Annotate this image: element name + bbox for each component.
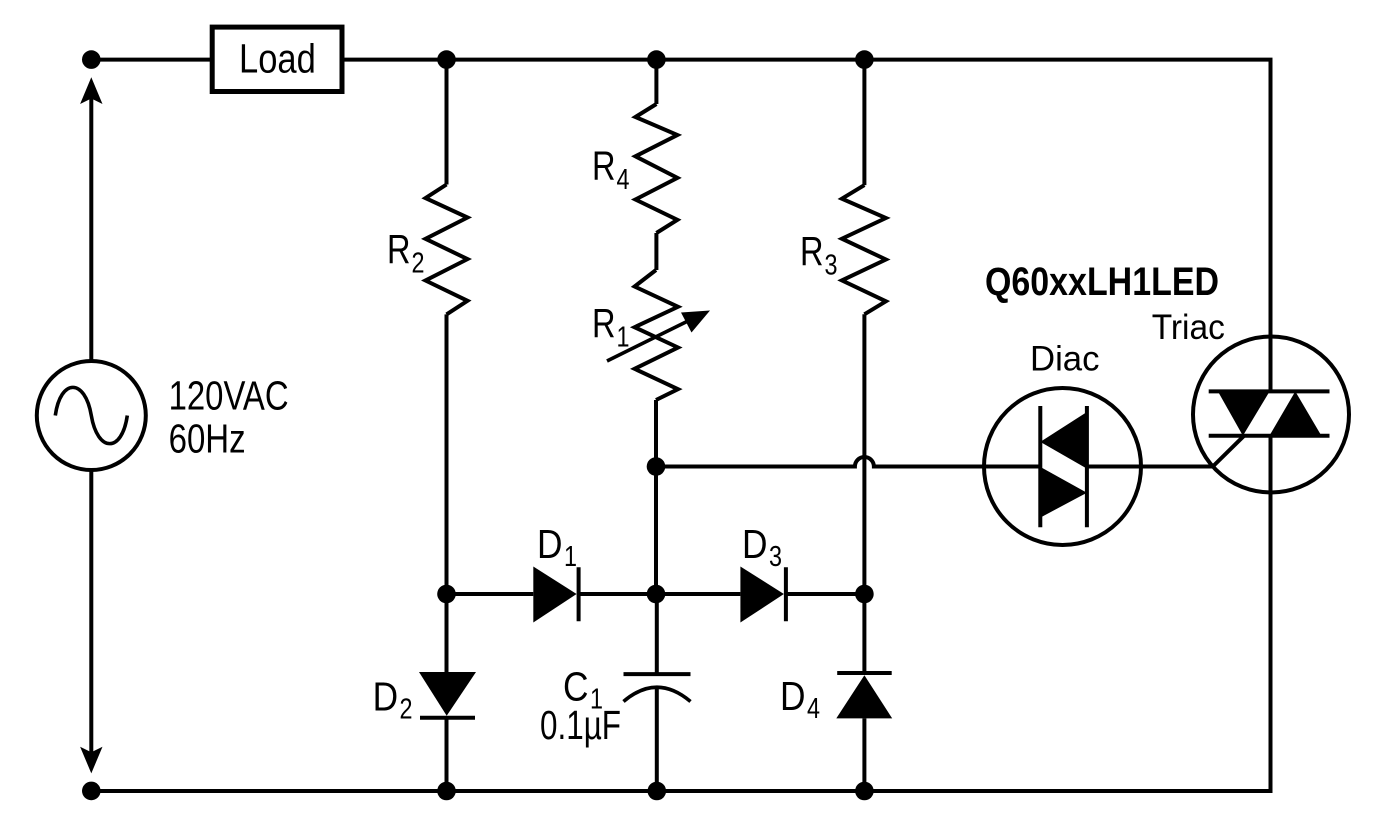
diode D1 triangle xyxy=(533,567,576,623)
wire C1 bottom lead xyxy=(655,688,659,791)
arrowhead down xyxy=(80,747,102,774)
Diac right wire to triac gate xyxy=(1087,465,1213,469)
diode D3 triangle xyxy=(740,567,784,623)
Triac right triangle xyxy=(1269,391,1321,435)
AC source sine wave xyxy=(55,387,127,443)
diode D4 triangle xyxy=(836,675,892,718)
svg-text:R: R xyxy=(387,226,411,272)
wire D1 cathode to center node xyxy=(579,592,656,596)
wire right rail lower part and bottom rail xyxy=(91,436,1270,791)
Triac bottom bar xyxy=(1209,434,1330,438)
svg-text:D: D xyxy=(373,674,399,720)
svg-text:D: D xyxy=(742,521,768,567)
node top left xyxy=(82,50,101,69)
svg-text:2: 2 xyxy=(412,248,425,280)
svg-text:120VAC: 120VAC xyxy=(169,373,289,419)
node bottom left xyxy=(82,782,101,801)
wire D4 cathode lead from diode rail xyxy=(862,594,866,673)
AC source V1 circle xyxy=(37,361,146,470)
diode D1 cathode bar xyxy=(577,567,581,621)
diode D2 triangle xyxy=(419,672,476,716)
node diode rail left xyxy=(437,585,456,604)
node diode rail right xyxy=(855,585,874,604)
wire R3 top lead xyxy=(862,60,866,186)
diode D4 cathode bar xyxy=(837,671,892,675)
wire top rail right segment and right rail upper part xyxy=(342,60,1271,392)
svg-text:R: R xyxy=(800,228,824,274)
AC source lower lead wire xyxy=(89,470,93,757)
wire D3 anode lead xyxy=(656,592,740,596)
Triac left triangle xyxy=(1218,391,1270,435)
wire D4 anode to bottom rail xyxy=(862,718,866,791)
svg-text:R: R xyxy=(592,143,616,189)
diode D3 cathode bar xyxy=(784,567,788,621)
wire R2 bottom lead down to D2 xyxy=(445,314,449,672)
wire R4 top lead xyxy=(654,60,658,104)
potentiometer R1 zigzag xyxy=(635,270,678,400)
Load box xyxy=(212,27,342,91)
Triac top bar xyxy=(1209,389,1330,393)
resistor R2 xyxy=(426,185,468,315)
wire top rail left segment xyxy=(91,58,212,62)
potentiometer R1 arrowhead xyxy=(681,311,710,333)
wire gate node down to D1-D3 rail xyxy=(654,467,658,595)
svg-text:4: 4 xyxy=(807,693,820,725)
node top R2 xyxy=(437,50,456,69)
capacitor C1 curved bottom plate xyxy=(624,687,691,701)
wire R1 bottom lead to gate node xyxy=(654,400,658,467)
wire gate horizontal with hop over R3 column xyxy=(656,457,984,467)
svg-text:Q60xxLH1LED: Q60xxLH1LED xyxy=(985,260,1219,304)
wire D2 to bottom rail xyxy=(445,718,449,791)
svg-text:R: R xyxy=(592,300,616,346)
node top R3 xyxy=(855,50,874,69)
wire D1 anode lead xyxy=(447,592,534,596)
arrowhead up xyxy=(80,77,102,104)
diode D2 cathode bar xyxy=(420,716,475,720)
node bottom C1 xyxy=(648,782,667,801)
node diode rail center xyxy=(647,585,666,604)
capacitor C1 top plate xyxy=(624,672,691,676)
svg-text:D: D xyxy=(537,521,563,567)
svg-text:Triac: Triac xyxy=(1152,308,1225,347)
AC source upper lead wire xyxy=(89,94,93,361)
svg-text:1: 1 xyxy=(617,322,630,354)
svg-text:D: D xyxy=(780,673,806,719)
node top R4 xyxy=(647,50,666,69)
wire R3 bottom lead down through gate crossing to diode rail xyxy=(862,314,866,594)
wire R2 top lead xyxy=(445,60,449,185)
node gate xyxy=(647,457,666,476)
node bottom R2 xyxy=(437,782,456,801)
potentiometer R1 arrow shaft xyxy=(607,319,693,362)
wire C1 top lead xyxy=(655,594,659,674)
wire D3 cathode to right node xyxy=(786,592,865,596)
Diac left wire inside circle xyxy=(984,465,1040,469)
Triac gate slant line xyxy=(1213,436,1244,467)
Diac lower triangle xyxy=(1040,467,1087,518)
wire between R4 and R1 xyxy=(654,233,658,270)
resistor R4 xyxy=(635,104,677,233)
svg-text:60Hz: 60Hz xyxy=(169,416,246,462)
Diac right bar xyxy=(1085,406,1089,527)
node bottom D4 xyxy=(855,782,874,801)
svg-text:4: 4 xyxy=(617,164,630,196)
Diac upper triangle xyxy=(1040,412,1087,469)
svg-text:3: 3 xyxy=(825,250,838,282)
svg-text:1: 1 xyxy=(564,541,577,573)
Diac circle xyxy=(984,388,1141,545)
svg-text:0.1µF: 0.1µF xyxy=(540,702,621,748)
svg-text:3: 3 xyxy=(769,541,782,573)
svg-text:Diac: Diac xyxy=(1030,339,1100,378)
svg-text:2: 2 xyxy=(400,694,413,726)
resistor R3 xyxy=(842,185,886,314)
Diac left bar xyxy=(1038,406,1042,527)
Triac circle xyxy=(1193,337,1349,493)
svg-text:Load: Load xyxy=(239,35,316,81)
